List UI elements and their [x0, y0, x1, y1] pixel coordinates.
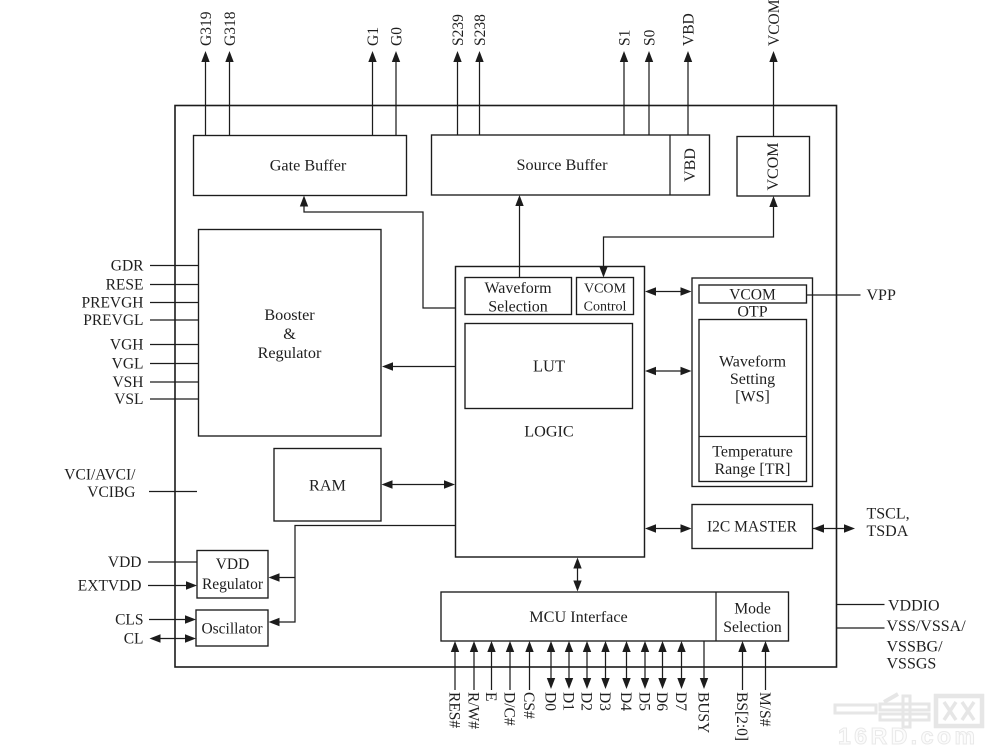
pin S0 (top output): [642, 29, 659, 135]
block VCOM Control: [577, 278, 634, 315]
pin VGL (left, wire to Booster): [112, 356, 199, 373]
svg-text:R/W#: R/W#: [465, 692, 482, 729]
svg-text:M/S#: M/S#: [756, 692, 773, 727]
pin VSL (left, wire to Booster): [114, 391, 198, 408]
pin G318 (top output): [222, 11, 239, 135]
svg-text:MCU Interface: MCU Interface: [529, 608, 627, 626]
pin D2 (bottom): [578, 641, 595, 711]
svg-text:S238: S238: [472, 14, 489, 46]
block Oscillator: [196, 610, 268, 646]
svg-text:VCOM: VCOM: [584, 282, 627, 297]
svg-text:CLS: CLS: [115, 612, 143, 629]
wire LOGIC to I2C MASTER (bidirectional): [645, 524, 692, 532]
pin S239 (top output): [450, 14, 467, 135]
svg-text:Regulator: Regulator: [202, 576, 264, 593]
pin S1 (top output): [617, 30, 634, 135]
svg-text:VCIBG: VCIBG: [87, 484, 135, 501]
svg-text:VBD: VBD: [681, 13, 698, 46]
svg-text:Selection: Selection: [723, 619, 782, 636]
block LOGIC: [456, 267, 645, 558]
svg-text:VDDIO: VDDIO: [888, 598, 940, 615]
wire Waveform Selection to OTP VCOM (bidirectional): [645, 287, 692, 295]
svg-text:S1: S1: [617, 30, 634, 46]
svg-text:TSCL,: TSCL,: [867, 506, 910, 523]
svg-text:GDR: GDR: [111, 258, 144, 275]
pin VCI/AVCI/VCIBG (left): [64, 467, 197, 502]
pin D7 (bottom): [672, 641, 689, 711]
svg-text:EXTVDD: EXTVDD: [78, 578, 142, 595]
pin RESE (left, wire to Booster): [106, 277, 199, 294]
svg-text:Selection: Selection: [488, 299, 548, 316]
pin BS[2:0] (bottom): [733, 641, 750, 741]
svg-text:D7: D7: [672, 692, 689, 711]
svg-text:G0: G0: [389, 27, 406, 46]
pin EXTVDD (left, arrow into VDD Regulator): [78, 578, 197, 595]
block VCOM buffer: [737, 137, 810, 197]
block RAM: [274, 449, 381, 522]
pin D6 (bottom): [653, 641, 670, 711]
svg-text:D2: D2: [578, 692, 595, 711]
svg-text:G319: G319: [198, 11, 215, 46]
svg-text:E: E: [482, 692, 499, 701]
pin D/C# (bottom): [501, 641, 518, 726]
svg-text:PREVGL: PREVGL: [83, 312, 143, 329]
svg-text:CL: CL: [124, 631, 144, 648]
pin CS# (bottom): [520, 641, 537, 719]
pin G0 (top output): [389, 27, 406, 136]
svg-text:LOGIC: LOGIC: [524, 423, 573, 441]
svg-text:D3: D3: [596, 692, 613, 711]
block I2C MASTER: [692, 505, 813, 549]
chip outer boundary: [175, 106, 837, 668]
pin VDD (left, wire to VDD Regulator): [108, 554, 197, 571]
svg-text:&: &: [283, 325, 296, 343]
wire LOGIC to Gate Buffer (arrow up into Gate Buffer): [300, 196, 456, 309]
pin D1 (bottom): [560, 641, 577, 711]
block MCU Interface: [441, 592, 789, 641]
svg-text:CS#: CS#: [520, 692, 537, 719]
pin E (bottom): [482, 641, 499, 701]
wire clock from LOGIC to VDD Regulator and Oscillator: [269, 526, 456, 627]
pin VBD (top output): [681, 13, 698, 135]
pin CL (left, bidirectional arrow to Oscillator): [124, 631, 196, 648]
svg-text:OTP: OTP: [737, 304, 767, 321]
svg-text:VBD: VBD: [682, 148, 699, 182]
svg-text:Range [TR]: Range [TR]: [715, 461, 791, 478]
svg-text:BUSY: BUSY: [695, 692, 712, 733]
svg-text:Regulator: Regulator: [258, 344, 322, 362]
pin PREVGH (left, wire to Booster): [81, 295, 198, 312]
svg-text:Oscillator: Oscillator: [201, 621, 263, 638]
svg-text:Waveform: Waveform: [719, 354, 787, 371]
wire VCOM Control to VCOM buffer (arrows both ends): [599, 196, 777, 278]
pin PREVGL (left, wire to Booster): [83, 312, 198, 329]
svg-text:VGL: VGL: [112, 356, 144, 373]
block VDD Regulator: [197, 551, 268, 599]
svg-text:S0: S0: [642, 29, 659, 46]
pin R/W# (bottom): [465, 641, 482, 729]
svg-text:VSSBG/: VSSBG/: [887, 639, 944, 656]
pin M/S# (bottom): [756, 641, 773, 727]
svg-text:VDD: VDD: [216, 556, 250, 573]
svg-text:Mode: Mode: [734, 601, 771, 618]
svg-text:TSDA: TSDA: [867, 523, 909, 540]
pin S238 (top output): [472, 14, 489, 135]
svg-text:D0: D0: [542, 692, 559, 711]
svg-text:VSH: VSH: [112, 374, 143, 391]
svg-text:VDD: VDD: [108, 554, 142, 571]
svg-text:Source Buffer: Source Buffer: [517, 156, 609, 174]
svg-text:D/C#: D/C#: [501, 692, 518, 726]
pin VDDIO (right): [837, 598, 940, 615]
wire LOGIC to Booster (arrow left into Booster): [382, 362, 456, 370]
wire LOGIC to MCU Interface (bidirectional): [573, 558, 581, 592]
pin D4 (bottom): [617, 641, 634, 711]
block Mode Selection: [723, 601, 782, 637]
block LUT: [465, 324, 633, 409]
svg-text:16RD.com: 16RD.com: [838, 723, 978, 749]
pin G1 (top output): [365, 27, 382, 135]
pin VSS/VSSA/VSSBG/VSSGS (right): [837, 618, 967, 673]
svg-text:Gate Buffer: Gate Buffer: [270, 157, 347, 175]
svg-text:RESE: RESE: [106, 277, 144, 294]
svg-text:S239: S239: [450, 14, 467, 46]
block Gate Buffer: [194, 136, 407, 196]
svg-text:VCOM: VCOM: [765, 142, 782, 190]
wire LUT to Waveform Setting (bidirectional): [645, 367, 692, 375]
block Source Buffer: [432, 135, 710, 195]
pin CLS (left, arrow into Oscillator): [115, 612, 196, 629]
pin BUSY (bottom): [695, 641, 712, 733]
pin D5 (bottom): [636, 641, 653, 711]
svg-text:PREVGH: PREVGH: [81, 295, 143, 312]
svg-text:Booster: Booster: [264, 306, 315, 324]
svg-text:RAM: RAM: [309, 477, 346, 495]
svg-text:D4: D4: [617, 692, 634, 711]
block OTP: [692, 278, 813, 487]
svg-text:D5: D5: [636, 692, 653, 711]
svg-text:VCOM: VCOM: [766, 0, 783, 46]
pin VSH (left, wire to Booster): [112, 374, 198, 391]
pin TSCL/TSDA (right, bidirectional with I2C MASTER): [813, 506, 910, 541]
pin D0 (bottom): [542, 641, 559, 711]
svg-text:LUT: LUT: [533, 357, 565, 376]
svg-text:VGH: VGH: [110, 337, 144, 354]
svg-text:VSS/VSSA/: VSS/VSSA/: [887, 618, 967, 635]
wire RAM to LOGIC (bidirectional): [382, 480, 456, 488]
watermark: [835, 694, 982, 749]
svg-text:VCOM: VCOM: [729, 287, 776, 304]
svg-text:Control: Control: [584, 300, 627, 315]
svg-text:VPP: VPP: [867, 287, 896, 304]
svg-text:G318: G318: [222, 11, 239, 46]
svg-text:VSL: VSL: [114, 391, 143, 408]
block Waveform Selection: [465, 278, 572, 316]
pin RES# (bottom): [446, 641, 463, 728]
block VCOM OTP register: [699, 285, 807, 304]
svg-text:D6: D6: [653, 692, 670, 711]
svg-text:BS[2:0]: BS[2:0]: [733, 692, 750, 741]
svg-text:I2C MASTER: I2C MASTER: [707, 519, 798, 536]
svg-text:[WS]: [WS]: [735, 389, 770, 406]
svg-text:Waveform: Waveform: [484, 280, 552, 297]
svg-text:VSSGS: VSSGS: [887, 656, 937, 673]
pin D3 (bottom): [596, 641, 613, 711]
svg-text:D1: D1: [560, 692, 577, 711]
pin VCOM (top output): [766, 0, 783, 137]
svg-text:Setting: Setting: [730, 371, 775, 388]
wire Waveform Selection to Source Buffer (arrow up): [515, 195, 523, 278]
svg-text:RES#: RES#: [446, 692, 463, 728]
pin GDR (left, wire to Booster): [111, 258, 199, 275]
svg-text:Temperature: Temperature: [712, 444, 793, 461]
block Waveform Setting [WS] / Temperature Range [TR]: [699, 320, 807, 482]
svg-text:G1: G1: [365, 27, 382, 46]
pin VGH (left, wire to Booster): [110, 337, 199, 354]
svg-text:VCI/AVCI/: VCI/AVCI/: [64, 467, 136, 484]
pin VPP (right, wire from VCOM OTP): [807, 287, 896, 304]
block Booster & Regulator: [199, 230, 382, 437]
pin G319 (top output): [198, 11, 215, 135]
